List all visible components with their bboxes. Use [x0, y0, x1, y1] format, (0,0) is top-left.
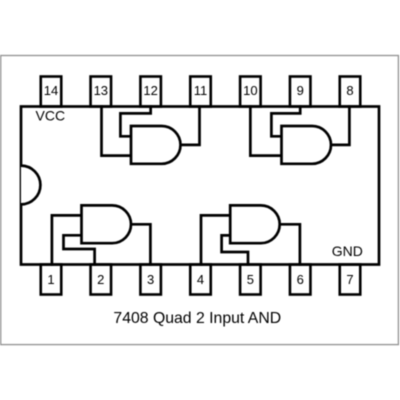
- svg-text:13: 13: [94, 83, 108, 98]
- wire pin2 to U1a input B: [64, 235, 95, 264]
- svg-text:10: 10: [243, 83, 257, 98]
- pin box 14: [41, 77, 62, 107]
- pin box 3: [140, 265, 161, 295]
- wire pin12 to U1d input A: [120, 107, 150, 137]
- pin box 13: [91, 77, 112, 107]
- pin box 4: [190, 265, 211, 295]
- wire pin9 to U1c input A: [271, 107, 300, 137]
- pin box 9: [290, 77, 311, 107]
- wire U1b output to pin6: [280, 224, 300, 264]
- pin box 12: [140, 77, 161, 107]
- svg-text:7408 Quad 2 Input AND: 7408 Quad 2 Input AND: [113, 310, 281, 327]
- svg-text:4: 4: [197, 272, 204, 287]
- wire pin4 to U1b input A: [201, 215, 232, 264]
- wire pin13 to U1d input B: [102, 107, 134, 156]
- svg-text:5: 5: [247, 272, 254, 287]
- svg-text:6: 6: [297, 272, 304, 287]
- pin box 2: [91, 265, 112, 295]
- svg-text:7: 7: [346, 272, 353, 287]
- svg-text:VCC: VCC: [36, 107, 66, 123]
- photo frame border: [1, 56, 399, 345]
- svg-text:11: 11: [194, 83, 208, 98]
- and gate U1d (pins 12,13 -> 11): [131, 126, 181, 164]
- wire U1d output to pin11: [181, 107, 200, 145]
- svg-text:2: 2: [97, 272, 104, 287]
- wire U1a output to pin3: [131, 224, 150, 264]
- IC body: [21, 107, 379, 265]
- pin box 10: [240, 77, 261, 107]
- svg-text:9: 9: [297, 83, 304, 98]
- svg-text:3: 3: [147, 272, 154, 287]
- wire pin5 to U1b input B: [222, 235, 248, 264]
- pin box 11: [190, 77, 211, 107]
- svg-text:1: 1: [47, 272, 54, 287]
- notch: [21, 166, 40, 205]
- and gate U1a (pins 1,2 -> 3): [82, 205, 132, 243]
- svg-text:8: 8: [346, 83, 353, 98]
- svg-text:12: 12: [143, 83, 157, 98]
- pin box 5: [240, 265, 261, 295]
- pin box 1: [41, 265, 62, 295]
- pin box 6: [290, 265, 311, 295]
- and gate U1c (pins 9,10 -> 8): [282, 126, 332, 164]
- and gate U1b (pins 4,5 -> 6): [230, 205, 279, 243]
- wire pin1 to U1a input A: [52, 215, 84, 264]
- svg-text:GND: GND: [332, 243, 363, 259]
- pin box 8: [340, 77, 361, 107]
- wire U1c output to pin8: [331, 107, 349, 145]
- wire pin10 to U1c input B: [250, 107, 283, 156]
- svg-text:14: 14: [44, 83, 58, 98]
- pin box 7: [340, 265, 361, 295]
